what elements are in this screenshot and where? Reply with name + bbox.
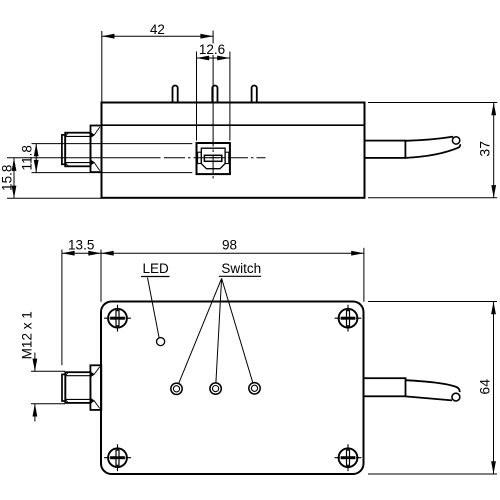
svg-text:LED: LED <box>142 261 169 276</box>
bottom view: M12 connector tip <box>62 374 65 401</box>
svg-text:15.8: 15.8 <box>0 165 15 191</box>
dimension 15.8: dimension line <box>13 158 15 198</box>
top view: connector side slots <box>198 152 202 163</box>
top view: connector tongue <box>204 155 221 161</box>
screw bottom-left <box>104 444 131 471</box>
dimension 15.8: extension line <box>7 197 102 199</box>
mounting tab 2 <box>212 86 217 103</box>
bottom view: barrel corner chamfers <box>65 372 68 403</box>
LED label underline <box>141 276 170 278</box>
bottom view: cable end face <box>452 393 460 401</box>
dimension 11.8: dimension line <box>35 144 37 173</box>
svg-text:Switch: Switch <box>221 261 261 276</box>
svg-text:11.8: 11.8 <box>20 145 35 170</box>
bottom view: cable gland <box>364 378 406 396</box>
svg-text:13.5: 13.5 <box>68 237 94 252</box>
svg-text:M12 x 1: M12 x 1 <box>20 311 35 359</box>
top view: hex nut chamfer marks <box>91 132 95 137</box>
dimension M12x1: arrow lines <box>34 353 36 372</box>
screw top-left <box>104 305 131 332</box>
switch leader 1 <box>179 278 222 383</box>
top view: M12 thread barrel <box>65 133 90 167</box>
mounting tab 1 <box>173 86 178 103</box>
top view: service connector inner outline <box>201 148 225 169</box>
bottom view: cable <box>406 380 460 392</box>
dimension 13.5: extension line <box>61 250 63 366</box>
dimension 37: extension lines <box>368 102 497 104</box>
svg-text:37: 37 <box>477 141 493 157</box>
dimension 64: dimension line <box>493 302 495 475</box>
top view: housing body <box>102 103 365 198</box>
dimension 12.6: extension lines <box>196 52 198 141</box>
top view: cable end face <box>452 137 459 144</box>
switch leader 2 <box>216 278 222 382</box>
dimension 12.6: dimension line <box>197 57 230 59</box>
switch potentiometer 1 <box>171 383 182 394</box>
bottom view: hex nut <box>90 365 101 410</box>
dimension 42: dimension line <box>102 35 213 37</box>
switch leader 3 <box>222 278 253 382</box>
bottom view: thread lines <box>65 375 90 377</box>
top view: thread lines <box>65 135 90 137</box>
LED indicator <box>157 338 165 346</box>
top view: horizontal centerline <box>7 157 266 159</box>
svg-text:64: 64 <box>477 379 493 395</box>
LED leader <box>148 278 160 338</box>
top view: housing lid edge line <box>102 124 365 126</box>
screw top-right <box>335 305 362 332</box>
top view: cable gland <box>365 141 406 158</box>
top view: service connector outer <box>197 143 230 174</box>
svg-text:98: 98 <box>222 237 237 252</box>
top view: tongue contact line <box>206 157 221 159</box>
screw bottom-right <box>335 444 362 471</box>
dimension 98: dimension line <box>101 252 364 254</box>
dimension 42: extension line <box>101 31 103 102</box>
top view: hex nut <box>91 126 102 173</box>
top view: barrel corner chamfers <box>65 133 68 166</box>
dimension 98: extension lines <box>100 250 102 302</box>
svg-text:12.6: 12.6 <box>199 42 225 57</box>
top view: M12 connector tip <box>62 135 65 164</box>
bottom view: M12 thread barrel <box>65 372 90 403</box>
top view: cable <box>405 137 453 141</box>
dimension M12x1: extension lines <box>31 370 65 372</box>
dimension 64: extension lines <box>368 301 497 303</box>
bottom view: housing body <box>101 302 364 475</box>
dimension 37: dimension line <box>493 103 495 198</box>
top view: vertical centerline <box>212 31 214 181</box>
switch potentiometer 3 <box>249 383 260 394</box>
dimension 11.8: extension lines <box>32 143 193 145</box>
dimension 13.5: dimension line <box>62 252 101 254</box>
bottom view: hex nut chamfer marks <box>91 372 95 377</box>
Switch label underline <box>219 275 261 277</box>
switch potentiometer 2 <box>210 383 221 394</box>
mounting tab 3 <box>252 86 257 103</box>
svg-text:42: 42 <box>150 22 165 37</box>
